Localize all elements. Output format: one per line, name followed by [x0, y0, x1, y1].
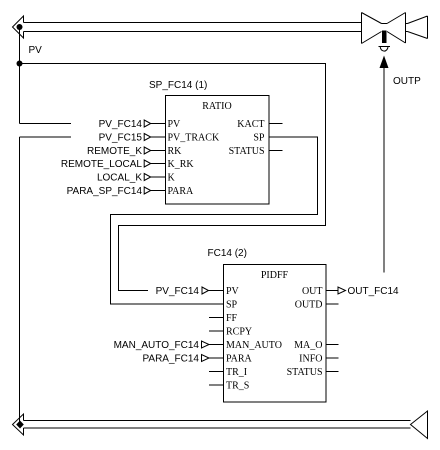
- svg-text:PV_TRACK: PV_TRACK: [168, 133, 220, 144]
- pin PV (RATIO input 1): [144, 120, 151, 127]
- svg-text:STATUS: STATUS: [287, 367, 323, 378]
- pin K_RK (RATIO input 4): [144, 160, 151, 167]
- pin STATUS (RATIO output 3): [269, 150, 283, 152]
- node diamond junction at bottom arrow: [16, 421, 24, 429]
- pin INFO (PIDFF output 4): [326, 357, 339, 359]
- arrow head filled up (to valve): [380, 56, 389, 69]
- svg-text:REMOTE_LOCAL: REMOTE_LOCAL: [61, 159, 143, 170]
- pin PV_TRACK (RATIO input 2): [144, 134, 151, 141]
- svg-text:PV: PV: [226, 286, 240, 297]
- svg-text:PV: PV: [29, 45, 43, 56]
- wire PV long line to PIDFF PV input: [20, 64, 326, 291]
- pin RK (RATIO input 3): [144, 147, 151, 154]
- valve actuator cone right: [406, 16, 428, 39]
- pin MAN_AUTO (PIDFF input 5): [202, 341, 210, 348]
- svg-text:SP: SP: [253, 133, 265, 144]
- svg-text:OUT_FC14: OUT_FC14: [348, 286, 400, 297]
- svg-text:RATIO: RATIO: [202, 101, 231, 112]
- wire OUTP vertical: [383, 67, 385, 273]
- valve throat: [382, 23, 388, 25]
- pin PARA (RATIO input 6): [144, 187, 151, 194]
- wire SP to PIDFF SP input: [111, 137, 318, 304]
- svg-text:PIDFF: PIDFF: [261, 270, 289, 281]
- svg-text:PV_FC14: PV_FC14: [99, 119, 143, 130]
- svg-text:KACT: KACT: [237, 119, 264, 130]
- svg-text:RCPY: RCPY: [226, 327, 252, 338]
- svg-text:K: K: [168, 173, 176, 184]
- arrow head top-left (hollow, pointing left): [13, 16, 24, 38]
- svg-text:MAN_AUTO_FC14: MAN_AUTO_FC14: [114, 340, 200, 351]
- svg-text:MAN_AUTO: MAN_AUTO: [226, 340, 282, 351]
- svg-text:STATUS: STATUS: [229, 146, 265, 157]
- svg-text:SP: SP: [226, 300, 238, 311]
- valve positioner dome: [379, 47, 391, 52]
- wire top shaft (hollow arrow shaft to valve): [24, 23, 362, 32]
- wire rail2 from bottom arrow to PV_FC15 row: [20, 137, 72, 425]
- valve body left triangle: [362, 13, 382, 44]
- svg-text:PARA: PARA: [168, 186, 195, 197]
- pin MA_O (PIDFF output 3): [326, 344, 339, 346]
- pin TR_I (PIDFF input 7): [209, 371, 224, 373]
- svg-text:PARA: PARA: [226, 354, 253, 365]
- svg-text:PARA_SP_FC14: PARA_SP_FC14: [67, 186, 143, 197]
- pin RCPY (PIDFF input 4): [209, 330, 224, 332]
- svg-text:PV_FC14: PV_FC14: [156, 286, 200, 297]
- wire rail1 PV down to RATIO PV_FC14 row: [20, 27, 72, 124]
- pin K (RATIO input 5): [144, 174, 151, 181]
- svg-text:K_RK: K_RK: [168, 159, 195, 170]
- svg-text:SP_FC14 (1): SP_FC14 (1): [149, 80, 207, 91]
- svg-text:MA_O: MA_O: [294, 340, 322, 351]
- pin OUTD (PIDFF output 2): [326, 303, 339, 305]
- pin FF (PIDFF input 3): [209, 317, 224, 319]
- pin OUT (PIDFF output 1): [326, 290, 338, 292]
- svg-text:LOCAL_K: LOCAL_K: [97, 173, 142, 184]
- arrow bell bottom-right: [411, 411, 428, 439]
- valve body right triangle: [387, 13, 406, 44]
- svg-text:REMOTE_K: REMOTE_K: [87, 146, 142, 157]
- svg-text:FC14 (2): FC14 (2): [208, 248, 247, 259]
- svg-text:OUTP: OUTP: [393, 76, 421, 87]
- svg-text:TR_S: TR_S: [226, 381, 249, 392]
- wire bottom shaft: [24, 421, 411, 429]
- pin STATUS (PIDFF output 5): [326, 371, 339, 373]
- pin TR_S (PIDFF input 8): [209, 384, 224, 386]
- node dot on PV rail: [17, 61, 23, 67]
- pin PARA (PIDFF input 6): [202, 355, 210, 362]
- svg-text:TR_I: TR_I: [226, 367, 247, 378]
- valve stem: [382, 31, 387, 44]
- svg-text:INFO: INFO: [299, 354, 322, 365]
- function block SP_FC14 RATIO: [166, 96, 270, 205]
- svg-text:OUT: OUT: [302, 286, 323, 297]
- svg-text:RK: RK: [168, 146, 183, 157]
- svg-text:PV_FC15: PV_FC15: [99, 133, 143, 144]
- pin PV (PIDFF input 1): [202, 287, 209, 294]
- svg-text:FF: FF: [226, 313, 238, 324]
- svg-text:PV: PV: [168, 119, 182, 130]
- node PV junction dot: [17, 24, 23, 30]
- arrow head bottom-left (hollow, pointing left): [13, 414, 24, 435]
- pin KACT (RATIO output 1): [269, 123, 283, 125]
- svg-text:OUTD: OUTD: [295, 300, 323, 311]
- function block FC14 PIDFF: [224, 265, 327, 403]
- svg-text:PARA_FC14: PARA_FC14: [142, 354, 199, 365]
